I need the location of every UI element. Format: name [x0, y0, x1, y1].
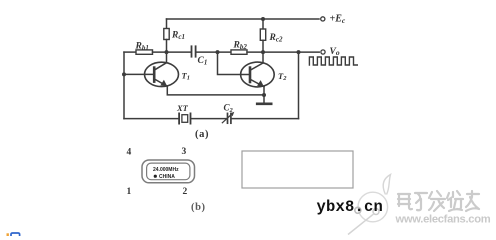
- svg-text:Rc1: Rc1: [171, 31, 185, 42]
- node T1 collector junction: [165, 50, 169, 54]
- svg-text:Vo: Vo: [330, 47, 340, 57]
- resistor Rb1: [136, 50, 153, 54]
- wire Rc2 top lead: [262, 19, 264, 29]
- wire C2 to XT: [191, 118, 227, 120]
- transistor T2: [241, 62, 275, 87]
- transistor T1: [145, 62, 179, 86]
- watermark text dianzifashaoyou: [398, 191, 479, 211]
- capacitor C2 trimmer: [222, 112, 234, 123]
- svg-text:C1: C1: [198, 56, 208, 67]
- svg-text:2: 2: [183, 187, 188, 197]
- svg-text:(a): (a): [195, 129, 209, 140]
- wire T2 emitter lead: [263, 87, 265, 104]
- wire C1 to node B2: [197, 51, 232, 53]
- wire collector node to Vo terminal: [263, 51, 319, 53]
- svg-text:24.000MHz: 24.000MHz: [153, 167, 179, 173]
- node T2 collector junction: [261, 50, 265, 54]
- svg-text:Rb2: Rb2: [233, 41, 248, 52]
- wire T1 emitter to common ground: [167, 86, 264, 95]
- wire Rc1 top lead: [166, 19, 168, 29]
- resistor Rb2: [231, 50, 247, 54]
- wire Rb2 to T2 collector node: [247, 51, 263, 53]
- svg-text:T1: T1: [182, 71, 190, 82]
- svg-text:+Ec: +Ec: [330, 14, 346, 26]
- ground: [257, 103, 271, 106]
- svg-text:ybx8.cn: ybx8.cn: [317, 198, 384, 216]
- node emitter junction: [262, 93, 266, 97]
- svg-text:Rb1: Rb1: [135, 42, 149, 53]
- svg-text:(b): (b): [191, 202, 206, 213]
- square wave symbol: [309, 57, 357, 65]
- crystal XT: [179, 113, 190, 123]
- svg-text:C2: C2: [224, 103, 234, 115]
- wire Rb1 to collector node: [153, 51, 191, 53]
- svg-text:1: 1: [127, 187, 132, 197]
- wire T2 base branch: [218, 52, 250, 74]
- node T1 base junction: [122, 72, 126, 76]
- wire T1 base: [124, 73, 154, 75]
- wire left feedback branch top: [124, 51, 136, 53]
- wire left vertical branch: [123, 52, 125, 119]
- svg-text:CHINA: CHINA: [159, 174, 175, 180]
- watermark logo circle: [348, 175, 391, 235]
- terminal Vo: [321, 50, 325, 54]
- node B2 junction: [216, 50, 220, 54]
- crystal package marking CHINA: [154, 174, 176, 180]
- resistor Rc2: [260, 29, 265, 40]
- wire bottom feedback left segment: [124, 118, 179, 120]
- crystal package outline (b): [142, 160, 195, 183]
- node +Ec rail Rc2 junction: [261, 17, 265, 21]
- wire Rc1 bottom lead: [166, 40, 168, 53]
- wire T2 collector lead: [262, 52, 264, 63]
- empty box: [242, 151, 353, 188]
- svg-text:Rc2: Rc2: [269, 33, 283, 44]
- resistor Rc1: [164, 29, 169, 40]
- capacitor C1: [192, 46, 196, 56]
- svg-text:4: 4: [127, 148, 132, 158]
- bottom-left cropped icon: [8, 233, 20, 236]
- wire top +Ec rail: [167, 18, 320, 20]
- svg-text:www.elecfans.com: www.elecfans.com: [395, 214, 491, 226]
- wire T1 collector lead: [166, 52, 168, 63]
- svg-text:T2: T2: [278, 71, 287, 82]
- wire bottom feedback right segment: [232, 118, 299, 120]
- node feedback takeoff junction: [297, 50, 301, 54]
- wire Rc2 bottom lead: [262, 40, 264, 52]
- svg-text:XT: XT: [176, 103, 189, 113]
- terminal +Ec: [321, 17, 325, 21]
- svg-text:3: 3: [182, 147, 187, 157]
- wire right feedback vertical: [298, 52, 300, 119]
